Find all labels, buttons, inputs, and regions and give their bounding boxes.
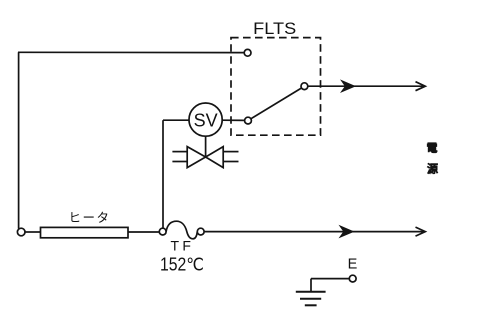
svg-text:SV: SV <box>194 109 219 130</box>
arrowhead solid bottom output <box>339 225 355 239</box>
switch FLTS blade <box>251 88 302 119</box>
svg-text:ヒータ: ヒータ <box>68 211 110 225</box>
svg-text:TF: TF <box>170 237 191 253</box>
wire left vertical rail <box>18 52 20 228</box>
switch FLTS dashed enclosure <box>231 38 321 136</box>
wire SV branch vertical <box>162 120 164 228</box>
wire SV to valve <box>205 136 207 157</box>
wire heater to TF <box>128 231 159 233</box>
arrowhead solid top output <box>340 79 356 93</box>
svg-text:E: E <box>348 257 358 273</box>
thermal fuse TF element (squiggle) <box>166 221 197 239</box>
wire terminal to heater <box>25 231 41 233</box>
svg-text:FLTS: FLTS <box>253 20 296 38</box>
wire top output line <box>308 85 425 87</box>
arrowhead open bottom output <box>416 227 426 236</box>
node terminal E <box>349 275 356 282</box>
wire ground lead vertical <box>310 279 312 292</box>
valve right triangle <box>206 147 224 168</box>
arrowhead open top output <box>416 82 426 91</box>
thermal fuse TF right terminal <box>197 228 204 235</box>
valve left pipe lines <box>172 151 187 153</box>
wire ground lead horizontal <box>311 278 349 280</box>
switch FLTS common terminal <box>245 117 252 124</box>
node terminal bottom-left <box>17 228 25 236</box>
svg-text:電: 電 <box>427 142 438 155</box>
thermal fuse TF left terminal <box>159 228 166 235</box>
heater ヒータ (resistor box) <box>41 227 129 237</box>
wire bottom output line <box>204 231 424 233</box>
solenoid SV body <box>189 103 222 136</box>
wire SV to switch common <box>222 119 244 121</box>
valve left triangle <box>187 147 205 168</box>
switch FLTS moving contact terminal <box>301 83 308 90</box>
wire SV branch horizontal <box>163 119 189 121</box>
svg-text:源: 源 <box>427 162 438 176</box>
valve right pipe lines <box>223 151 238 153</box>
svg-text:152℃: 152℃ <box>160 255 204 275</box>
switch FLTS upper fixed terminal <box>244 49 251 56</box>
wire top horizontal (left rail to FLTS terminal) <box>18 51 244 53</box>
ground E symbol bars <box>296 291 326 293</box>
